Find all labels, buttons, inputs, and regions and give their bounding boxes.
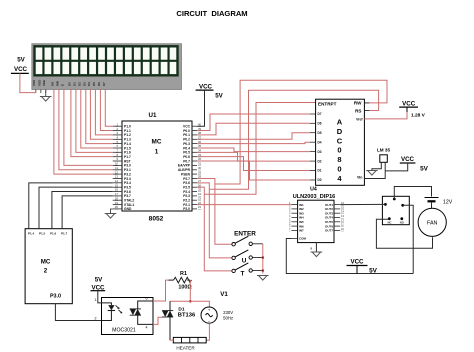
- svg-text:P1.2: P1.2: [124, 133, 131, 137]
- svg-text:A: A: [337, 118, 343, 127]
- svg-text:PSEN: PSEN: [181, 172, 191, 176]
- svg-text:V1: V1: [220, 291, 228, 298]
- switch U: [232, 250, 263, 264]
- svg-text:U1: U1: [149, 112, 157, 119]
- svg-text:5V: 5V: [17, 57, 25, 64]
- svg-text:VCC: VCC: [183, 125, 191, 129]
- svg-text:VCC: VCC: [14, 66, 28, 73]
- svg-text:P1.7: P1.7: [61, 232, 68, 236]
- relay contacts: [384, 198, 404, 221]
- svg-text:VCC: VCC: [401, 156, 415, 163]
- ground under ULN2003 pin 8: [315, 243, 317, 252]
- svg-text:T: T: [241, 271, 245, 278]
- wire R1 to mains node: [189, 280, 191, 301]
- svg-text:50Hz: 50Hz: [223, 315, 233, 320]
- wire battery to FAN: [431, 202, 433, 208]
- ADC right stubs RW RS Vref Vin: [364, 102, 369, 104]
- optocoupler MOC3021 body: [102, 298, 154, 335]
- svg-text:14: 14: [115, 179, 119, 183]
- wire V1 bottom to heater: [206, 323, 209, 340]
- wire ADC RS to U switch node and U1 P2.6: [209, 90, 378, 189]
- svg-text:VCC: VCC: [402, 100, 416, 107]
- svg-text:P3.0: P3.0: [50, 294, 61, 300]
- svg-text:P1.6: P1.6: [50, 232, 57, 236]
- svg-text:1.28 V: 1.28 V: [411, 112, 426, 118]
- svg-text:D7: D7: [318, 112, 322, 116]
- svg-text:0: 0: [337, 165, 341, 174]
- wire ADC INTR (ENTRPT) to T switch node and U1 P2.5: [204, 103, 315, 195]
- svg-text:P2.0: P2.0: [183, 207, 190, 211]
- heater element: [173, 337, 206, 343]
- svg-text:EA/VPP: EA/VPP: [178, 164, 191, 168]
- svg-text:P0.7: P0.7: [183, 159, 190, 163]
- ground under LCD pin 3: [45, 90, 47, 97]
- svg-text:P3.2: P3.2: [124, 172, 131, 176]
- svg-text:D0: D0: [318, 178, 322, 182]
- driver U4 ULN2003 body: [298, 200, 334, 242]
- resistor R1 100ohm: [169, 279, 174, 281]
- ADC U3 ADC0804 body: [316, 99, 365, 185]
- svg-text:R1: R1: [180, 271, 187, 277]
- wire switch commons to ground: [262, 244, 264, 274]
- svg-text:D1: D1: [178, 306, 184, 312]
- ground at U1 GND pin 20: [111, 209, 113, 214]
- wire LM35 Vs to VCC: [385, 163, 408, 171]
- svg-text:P2.4: P2.4: [183, 190, 190, 194]
- svg-text:Vref: Vref: [356, 118, 363, 122]
- svg-text:HEATER: HEATER: [176, 346, 195, 351]
- wire heater to triac: [170, 339, 173, 341]
- ULN2003 output pin stubs: [325, 201, 344, 233]
- svg-text:VCC: VCC: [199, 84, 213, 91]
- svg-text:29: 29: [198, 170, 202, 174]
- svg-text:D5: D5: [92, 82, 96, 86]
- svg-text:0: 0: [337, 146, 341, 155]
- svg-text:5V: 5V: [369, 268, 378, 275]
- wire MOC pin4 to triac gate: [153, 317, 162, 324]
- wire MOC pin6 to R1: [153, 280, 169, 301]
- svg-text:RST: RST: [124, 159, 131, 163]
- svg-text:RW: RW: [55, 81, 59, 86]
- svg-text:LM 35: LM 35: [377, 148, 390, 153]
- microcontroller block MC2: [25, 229, 72, 304]
- U1 left pin names: [124, 125, 134, 212]
- wires LCD data/control lines to U1 port pins: [54, 93, 113, 175]
- svg-text:MC: MC: [41, 259, 51, 266]
- svg-text:23: 23: [198, 196, 202, 200]
- svg-text:1: 1: [95, 298, 97, 302]
- svg-text:4: 4: [146, 326, 148, 330]
- wire relay NO-side to 5V rail: [403, 205, 414, 273]
- svg-text:RS: RS: [355, 108, 361, 113]
- svg-text:IN7: IN7: [299, 229, 304, 233]
- svg-text:8: 8: [337, 155, 341, 164]
- LCD module body: [32, 44, 182, 90]
- svg-text:Vin: Vin: [357, 176, 363, 180]
- svg-text:VSS: VSS: [32, 80, 36, 86]
- svg-text:5V: 5V: [95, 277, 103, 284]
- LCD pin stubs: [36, 90, 106, 94]
- svg-text:5V: 5V: [420, 165, 429, 172]
- svg-text:P3.6: P3.6: [124, 190, 131, 194]
- wire ADC Vref to 1.28V supply: [364, 112, 407, 119]
- svg-text:D4: D4: [318, 140, 322, 144]
- ADC data pin stubs D7-D0: [310, 112, 322, 182]
- svg-text:P0.5: P0.5: [183, 151, 190, 155]
- svg-text:18: 18: [115, 196, 119, 200]
- svg-text:FAN: FAN: [427, 221, 438, 227]
- ADC0804 vertical lettering: [337, 118, 343, 183]
- svg-text:D2: D2: [318, 159, 322, 163]
- switch T: [232, 263, 263, 278]
- ULN2003 input pin stubs: [289, 201, 304, 233]
- LCD pin name labels (rotated): [32, 79, 106, 86]
- svg-text:11: 11: [115, 166, 118, 170]
- svg-text:P0.1: P0.1: [183, 133, 190, 137]
- svg-text:D3: D3: [318, 150, 322, 154]
- svg-text:230V: 230V: [223, 310, 233, 315]
- wire MC2 P3.0 to MOC3021 pin2: [55, 304, 101, 321]
- svg-text:MC: MC: [152, 139, 162, 146]
- U1 left pin stubs and numbers: [113, 122, 122, 209]
- svg-text:D2: D2: [77, 82, 81, 86]
- wire ADC RW to ENTER switch node and U1 P2.7: [215, 80, 387, 184]
- triac D1 BT136: [162, 301, 173, 340]
- svg-text:1: 1: [155, 149, 159, 156]
- svg-text:D6: D6: [318, 122, 322, 126]
- svg-text:E: E: [60, 84, 64, 86]
- svg-text:12: 12: [115, 170, 119, 174]
- wire FAN to relay NC contact: [376, 219, 432, 248]
- svg-text:D1: D1: [72, 82, 76, 86]
- svg-text:OUT7: OUT7: [325, 229, 333, 233]
- wire VCC to LCD VSS pin: [20, 73, 36, 92]
- svg-text:D: D: [337, 127, 343, 136]
- svg-text:2: 2: [44, 268, 48, 275]
- U1 right pin names: [178, 125, 191, 212]
- svg-text:COM: COM: [299, 237, 307, 241]
- svg-text:ULN2003_DIP16: ULN2003_DIP16: [293, 194, 336, 200]
- svg-text:P1.6: P1.6: [124, 151, 131, 155]
- wire LM35 gnd: [372, 162, 381, 170]
- MOC3021 internal LED: [102, 303, 116, 321]
- svg-text:16: 16: [115, 188, 119, 192]
- svg-text:VEE: VEE: [42, 80, 46, 86]
- svg-text:BT136: BT136: [178, 312, 196, 318]
- battery 12V: [425, 197, 439, 199]
- svg-text:21: 21: [198, 205, 202, 209]
- svg-text:P2.6: P2.6: [183, 181, 190, 185]
- ULN2003 COM pin: [291, 238, 297, 240]
- svg-text:2: 2: [95, 317, 97, 321]
- svg-text:25: 25: [198, 188, 202, 192]
- svg-text:5V: 5V: [215, 93, 223, 100]
- svg-text:20: 20: [115, 205, 119, 209]
- wires MC2 to U1 P3.4-P3.7: [29, 183, 113, 229]
- svg-text:D4: D4: [87, 82, 91, 86]
- node wire triac top / V1 top: [170, 301, 209, 307]
- svg-text:D7: D7: [102, 82, 106, 86]
- svg-text:D0: D0: [67, 82, 71, 86]
- svg-text:VCC: VCC: [350, 259, 364, 266]
- svg-text:P1.0: P1.0: [124, 125, 131, 129]
- svg-text:NC: NC: [387, 220, 391, 224]
- svg-text:P3.4: P3.4: [124, 181, 131, 185]
- wire relay common to 12V battery: [394, 187, 431, 200]
- svg-text:GND: GND: [124, 207, 132, 211]
- svg-text:D1: D1: [318, 169, 322, 173]
- svg-text:MOC3021: MOC3021: [112, 328, 136, 334]
- svg-text:12V: 12V: [443, 200, 453, 206]
- svg-text:U: U: [242, 257, 247, 264]
- U1 right pin stubs and numbers: [192, 122, 202, 209]
- svg-text:P2.2: P2.2: [183, 199, 190, 203]
- svg-text:P0.3: P0.3: [183, 142, 190, 146]
- svg-text:P3.0: P3.0: [124, 164, 131, 168]
- motor FAN: [418, 208, 446, 236]
- svg-text:XTAL2: XTAL2: [124, 199, 134, 203]
- svg-text:ENTRPT: ENTRPT: [318, 101, 337, 106]
- svg-text:ENTER: ENTER: [234, 230, 256, 237]
- svg-text:6: 6: [146, 297, 148, 301]
- svg-text:D6: D6: [97, 82, 101, 86]
- svg-text:8052: 8052: [149, 216, 164, 223]
- wire U1 P2.1 to ULN2003 IN1: [197, 204, 291, 206]
- MOC3021 internal photo-triac: [130, 301, 153, 324]
- wires U1 P0.0-P0.7 to ADC D7-D0: [197, 114, 310, 180]
- LED light arrows: [116, 305, 122, 312]
- wire VCC stem to U1 pin40: [197, 90, 205, 126]
- svg-text:P1.4: P1.4: [28, 232, 35, 236]
- svg-text:D3: D3: [82, 82, 86, 86]
- svg-text:P1.5: P1.5: [39, 232, 46, 236]
- wire ULN COM to 5V rail: [286, 239, 413, 274]
- switch ENTER: [232, 230, 263, 246]
- svg-text:VDD: VDD: [37, 79, 41, 86]
- ground below switches: [259, 276, 268, 281]
- wire ULN OUT1 to relay coil: [340, 203, 385, 205]
- svg-text:C: C: [337, 136, 343, 145]
- svg-text:RS: RS: [50, 82, 54, 86]
- svg-text:RW: RW: [354, 101, 362, 106]
- relay box: [382, 196, 409, 224]
- svg-text:U4: U4: [310, 187, 317, 193]
- svg-text:D5: D5: [318, 131, 322, 135]
- svg-text:P1.4: P1.4: [124, 142, 131, 146]
- svg-text:30: 30: [198, 166, 202, 170]
- svg-text:CIRCUIT DIAGRAM: CIRCUIT DIAGRAM: [176, 9, 247, 18]
- wire LM35 out to ADC Vin: [364, 162, 385, 178]
- microcontroller U1 8052 body: [122, 121, 192, 211]
